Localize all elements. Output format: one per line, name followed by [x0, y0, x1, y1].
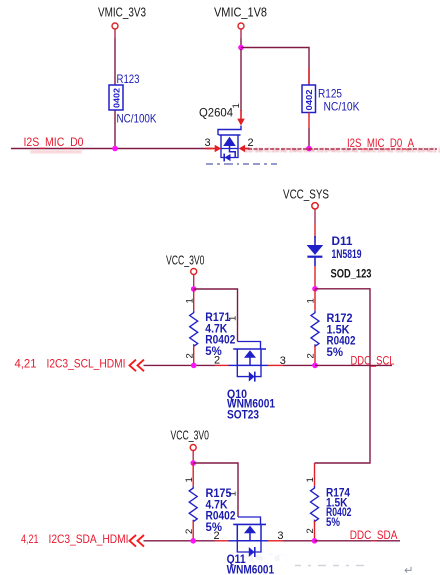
svg-text:0402: 0402 — [112, 88, 122, 108]
svg-text:3: 3 — [205, 137, 211, 149]
svg-text:1: 1 — [185, 298, 196, 303]
svg-text:R0402: R0402 — [327, 336, 356, 348]
svg-text:D11: D11 — [332, 236, 354, 248]
svg-text:R175: R175 — [206, 488, 233, 500]
svg-text:WNM6001: WNM6001 — [227, 398, 276, 410]
svg-text:2: 2 — [305, 528, 316, 533]
svg-text:VMIC_3V3: VMIC_3V3 — [98, 6, 146, 20]
svg-text:DDC_SDA: DDC_SDA — [350, 528, 398, 542]
svg-text:I2S_MIC_D0: I2S_MIC_D0 — [24, 135, 84, 149]
svg-text:VCC_SYS: VCC_SYS — [283, 188, 329, 202]
svg-text:SOD_123: SOD_123 — [331, 268, 372, 280]
svg-text:0402: 0402 — [304, 89, 314, 110]
svg-text:SOT23: SOT23 — [227, 410, 259, 422]
svg-text:2: 2 — [185, 353, 196, 358]
svg-text:VCC_3V0: VCC_3V0 — [166, 253, 205, 267]
svg-text:DDC_SCL: DDC_SCL — [351, 354, 395, 368]
svg-text:1: 1 — [305, 477, 316, 482]
svg-text:R123: R123 — [117, 72, 140, 86]
svg-text:VCC_3V0: VCC_3V0 — [171, 428, 210, 442]
svg-text:4,21: 4,21 — [15, 356, 37, 370]
svg-text:5%: 5% — [327, 347, 344, 359]
svg-text:Q2604: Q2604 — [199, 106, 233, 120]
svg-text:1: 1 — [184, 477, 195, 482]
svg-text:I2C3_SDA_HDMI: I2C3_SDA_HDMI — [49, 532, 129, 546]
svg-text:3: 3 — [280, 355, 286, 367]
svg-text:R0402: R0402 — [206, 511, 236, 523]
svg-text:4.7K: 4.7K — [206, 499, 229, 511]
svg-text:2: 2 — [214, 355, 220, 367]
svg-text:I2S_MIC_D0_A: I2S_MIC_D0_A — [347, 136, 414, 150]
svg-text:2: 2 — [306, 353, 317, 358]
svg-text:3: 3 — [277, 530, 283, 542]
svg-text:R0402: R0402 — [205, 335, 235, 347]
svg-text:2: 2 — [184, 529, 195, 534]
svg-text:VMIC_1V8: VMIC_1V8 — [214, 6, 267, 20]
svg-text:4,21: 4,21 — [21, 532, 39, 546]
svg-text:R125: R125 — [318, 87, 342, 101]
svg-text:I2C3_SCL_HDMI: I2C3_SCL_HDMI — [47, 356, 126, 370]
svg-text:4.7K: 4.7K — [205, 323, 228, 335]
svg-text:1.5K: 1.5K — [327, 324, 351, 336]
svg-text:1: 1 — [306, 298, 317, 303]
svg-text:↵: ↵ — [404, 565, 414, 575]
svg-text:R172: R172 — [327, 313, 353, 325]
svg-text:NC/10K: NC/10K — [324, 100, 360, 114]
svg-text:1N5819: 1N5819 — [332, 249, 362, 261]
svg-text:NC/100K: NC/100K — [117, 112, 157, 126]
svg-text::1%·¯d´:: :1%·¯d´: — [245, 553, 289, 563]
svg-text:WNM6001: WNM6001 — [227, 565, 275, 575]
svg-text:5%: 5% — [326, 517, 340, 529]
svg-text:R171: R171 — [205, 312, 231, 324]
svg-text:2: 2 — [214, 530, 220, 542]
